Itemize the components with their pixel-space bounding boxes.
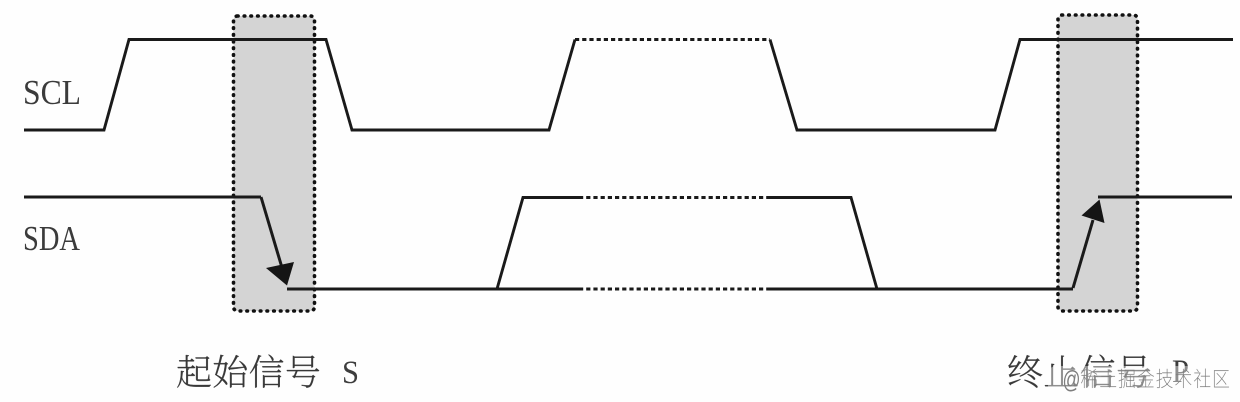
caption stop: char 终: [1008, 355, 1042, 388]
SDA trapezoid rising edge and top solid: [497, 198, 579, 290]
stop condition box P: [1058, 15, 1138, 311]
SDA falling arrowhead: [266, 262, 294, 286]
SDA rising arrowhead: [1082, 200, 1105, 224]
SDA rising edge arrow shaft (stop condition): [1073, 220, 1093, 288]
caption stop: char 止: [1045, 356, 1078, 387]
SDA trapezoid top dotted: [579, 196, 768, 199]
watermark char 区: [1214, 370, 1229, 387]
SDA wire left high segment: [24, 196, 261, 199]
SDA falling edge arrow shaft (start condition): [261, 197, 282, 266]
svg-text:@: @: [1063, 366, 1081, 394]
watermark char 金: [1138, 369, 1154, 387]
svg-text:SCL: SCL: [23, 73, 81, 112]
SCL wire left: low, rising edge, high through start box, falling edge, low, rising edge: [24, 40, 575, 131]
caption stop: char 信: [1081, 355, 1114, 388]
caption start: char 信: [250, 355, 283, 388]
watermark fade overlay: [1048, 366, 1240, 402]
caption start: char 号: [287, 355, 319, 387]
watermark char 土: [1100, 369, 1116, 387]
SDA wire right high segment: [1098, 196, 1232, 199]
watermark char 术: [1175, 369, 1191, 388]
watermark char 社: [1194, 369, 1210, 388]
SDA wire low solid to stop box: [768, 288, 1073, 291]
svg-text:SDA: SDA: [23, 219, 81, 258]
watermark char 掘: [1119, 369, 1135, 388]
SDA wire low dotted middle: [579, 288, 768, 291]
caption start: char 始: [214, 355, 247, 388]
SDA wire low solid after start: [287, 288, 579, 291]
start condition box S: [234, 16, 315, 311]
svg-text:S: S: [342, 355, 359, 391]
caption stop: char 号: [1118, 355, 1150, 387]
caption start: char 起: [177, 355, 211, 388]
watermark char 技: [1157, 369, 1173, 388]
SDA trapezoid top solid and falling edge: [768, 198, 877, 290]
SCL wire right: falling edge, low, rising edge, high through stop box: [770, 40, 1233, 131]
SCL wire dotted high segment: [575, 38, 770, 41]
watermark char 稀: [1081, 369, 1097, 388]
